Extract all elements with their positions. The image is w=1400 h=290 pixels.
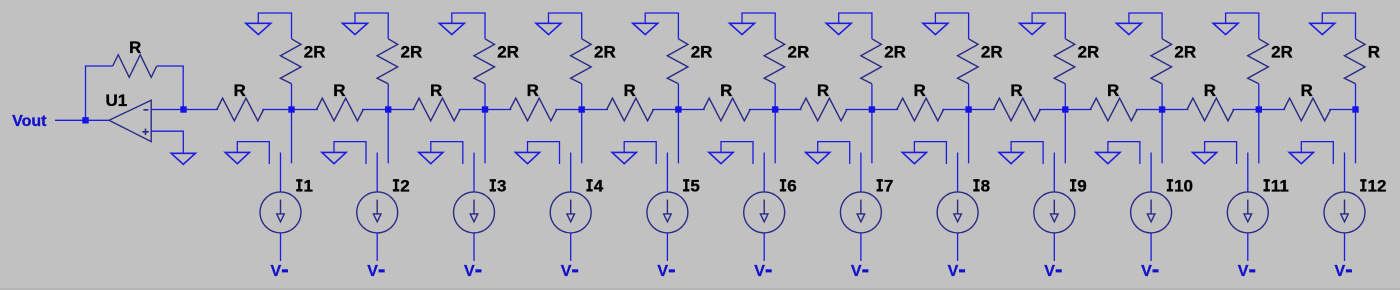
ground (top of 2R #3) wire (452, 13, 485, 39)
node N4 (junction square) (579, 106, 585, 112)
ground (top of 2R #1) symbol (246, 23, 271, 34)
label I10 (1167, 177, 1193, 196)
node N5 (junction square) (675, 106, 681, 112)
node inverting input (junction square) (180, 106, 186, 112)
ground (top of 2R #6) symbol (730, 23, 755, 34)
net label V- (#2) (367, 263, 385, 280)
ground (near I5) wire (624, 142, 656, 164)
wire 2R #10 to node (1161, 84, 1163, 110)
ground (near I8) wire (914, 142, 946, 164)
svg-text:2: 2 (400, 177, 409, 196)
svg-text:R: R (527, 81, 539, 100)
label 2R (shunt #4) (594, 42, 616, 61)
svg-text:R: R (1107, 81, 1119, 100)
label I1 (296, 177, 313, 196)
label I4 (586, 177, 603, 196)
net label V- (#6) (754, 263, 771, 280)
wire ladder segment left of R9 (969, 109, 995, 111)
svg-text:2R: 2R (1078, 42, 1100, 61)
wire non-inverting input (151, 131, 183, 153)
wire ladder segment right of R5 (652, 109, 678, 111)
svg-text:Vout: Vout (12, 113, 47, 130)
wire feedback left (86, 66, 113, 117)
wire node N10 down (1161, 113, 1163, 164)
wire Vout to output node (55, 119, 86, 121)
ground (top of 2R #10) wire (1129, 13, 1162, 39)
wire 2R #8 to node (968, 84, 970, 110)
wire node N4 down (581, 113, 583, 164)
wire ladder segment right of R2 (362, 109, 388, 111)
ground (near I12) wire (1301, 142, 1333, 164)
wire ladder segment right of R10 (1136, 109, 1162, 111)
wire 2R #4 to node (581, 84, 583, 110)
resistor 2R (shunt #8) body (958, 39, 979, 84)
node N9 (junction square) (1062, 106, 1068, 112)
node N10 (junction square) (1159, 106, 1165, 112)
resistor R (series #7) body (800, 98, 847, 121)
wire output node to op-amp (86, 119, 110, 121)
node N2 (junction square) (385, 106, 391, 112)
wire ladder segment left of R2 (292, 109, 318, 111)
net label V- (#1) (271, 263, 289, 280)
wire node N6 down (774, 113, 776, 164)
resistor R (series #9) body (994, 98, 1041, 121)
wire ladder segment right of R7 (846, 109, 872, 111)
wire node N1 down (291, 113, 293, 164)
ground (near I2) wire (334, 142, 366, 164)
wire ladder segment right of R4 (555, 109, 581, 111)
svg-text:V: V (948, 263, 959, 280)
label I3 (490, 177, 507, 196)
svg-text:R: R (1204, 81, 1216, 100)
node N1 (junction square) (288, 106, 294, 112)
svg-text:2R: 2R (401, 42, 423, 61)
ground (near I5) symbol (612, 152, 636, 163)
label I7 (877, 177, 894, 196)
wire ladder segment right of R6 (749, 109, 775, 111)
net label V- (#5) (657, 263, 674, 280)
current source I11 (1227, 153, 1268, 262)
svg-text:V: V (1335, 263, 1346, 280)
svg-text:V: V (657, 263, 668, 280)
ground (near I3) wire (431, 142, 463, 164)
ground (top of 2R #8) wire (935, 13, 968, 39)
label R (series #8) (914, 81, 926, 100)
ground (top of 2R #6) wire (742, 13, 775, 39)
resistor 2R (shunt #1) body (280, 39, 301, 84)
svg-text:5: 5 (690, 177, 699, 196)
ground (top of 2R #11) wire (1226, 13, 1259, 39)
wire ladder segment right of R3 (459, 109, 485, 111)
svg-text:V: V (1238, 263, 1249, 280)
svg-text:R: R (129, 38, 141, 57)
label R (series #5) (623, 81, 635, 100)
ground (near I10) symbol (1096, 152, 1120, 163)
wire ladder segment right of R8 (942, 109, 968, 111)
svg-text:V: V (754, 263, 765, 280)
svg-text:R: R (1010, 81, 1022, 100)
label I9 (1070, 177, 1087, 196)
svg-text:8: 8 (981, 177, 990, 196)
net label V- (#9) (1044, 263, 1061, 280)
ground (near I6) wire (721, 142, 753, 164)
label 2R (shunt #5) (691, 42, 713, 61)
label 2R (shunt #6) (788, 42, 810, 61)
wire ladder segment left of R12 (1259, 109, 1285, 111)
ground (top of 2R #9) symbol (1020, 23, 1045, 34)
current source I10 (1131, 153, 1172, 262)
label R (feedback) (129, 38, 141, 57)
svg-text:2R: 2R (497, 42, 519, 61)
svg-text:V: V (1044, 263, 1055, 280)
resistor 2R (shunt #2) body (377, 39, 398, 84)
label R (series #10) (1107, 81, 1119, 100)
ground (near I10) wire (1108, 142, 1140, 164)
wire 2R #3 to node (484, 84, 486, 110)
svg-text:12: 12 (1368, 177, 1387, 196)
label 2R (shunt #2) (401, 42, 423, 61)
svg-text:4: 4 (594, 177, 604, 196)
ground (top of 2R #7) symbol (826, 23, 851, 34)
label 2R (shunt #8) (981, 42, 1003, 61)
resistor R (series #6) body (703, 98, 750, 121)
label R (shunt #12) (1368, 42, 1380, 61)
resistor 2R (shunt #11) body (1248, 39, 1269, 84)
ground (top of 2R #5) wire (645, 13, 678, 39)
resistor R (feedback) body (113, 55, 157, 78)
label R (series #11) (1204, 81, 1216, 100)
resistor 2R (shunt #3) body (474, 39, 495, 84)
current source I3 (454, 153, 495, 262)
wire 2R #9 to node (1064, 84, 1066, 110)
svg-text:6: 6 (787, 177, 796, 196)
resistor R (series #12) body (1284, 98, 1331, 121)
svg-text:R: R (914, 81, 926, 100)
ground (near I4) symbol (515, 152, 539, 163)
ground (near I4) wire (528, 142, 560, 164)
ground (near I12) symbol (1289, 152, 1313, 163)
svg-text:2R: 2R (788, 42, 810, 61)
svg-text:2R: 2R (304, 42, 326, 61)
current source I1 (260, 153, 301, 262)
svg-text:2R: 2R (1271, 42, 1293, 61)
ground (near I7) wire (818, 142, 850, 164)
svg-text:U1: U1 (106, 91, 128, 110)
node N6 (junction square) (772, 106, 778, 112)
svg-text:R: R (333, 81, 345, 100)
current source I12 (1324, 153, 1365, 262)
current source I2 (357, 153, 398, 262)
ground (near I11) wire (1205, 142, 1237, 164)
svg-text:9: 9 (1077, 177, 1086, 196)
label R (series #1) (234, 81, 246, 100)
wire node N9 down (1064, 113, 1066, 164)
svg-text:2R: 2R (1174, 42, 1196, 61)
svg-text:R: R (234, 81, 246, 100)
wire ladder segment left of R7 (775, 109, 801, 111)
svg-text:V: V (464, 263, 475, 280)
wire 2R #5 to node (677, 84, 679, 110)
node N7 (junction square) (869, 106, 875, 112)
wire ladder segment left of R4 (485, 109, 511, 111)
current source I6 (744, 153, 785, 262)
label 2R (shunt #9) (1078, 42, 1100, 61)
label R (series #7) (817, 81, 829, 100)
wire ladder segment left of R5 (582, 109, 608, 111)
resistor 2R (shunt #7) body (861, 39, 882, 84)
current source I9 (1034, 153, 1075, 262)
label I5 (683, 177, 700, 196)
label 2R (shunt #10) (1174, 42, 1196, 61)
ground (near I1) wire (237, 142, 269, 164)
svg-text:V: V (851, 263, 862, 280)
node Vout (junction square) (82, 117, 88, 123)
node N3 (junction square) (482, 106, 488, 112)
svg-text:2R: 2R (981, 42, 1003, 61)
ground (top of 2R #7) wire (839, 13, 872, 39)
wire 2R #6 to node (774, 84, 776, 110)
label R (series #9) (1010, 81, 1022, 100)
svg-text:3: 3 (497, 177, 506, 196)
ground (near I6) symbol (709, 152, 733, 163)
wire node N3 down (484, 113, 486, 164)
ground (near I9) symbol (999, 152, 1023, 163)
label R (series #3) (430, 81, 442, 100)
svg-text:V: V (271, 263, 282, 280)
label I12 (1360, 177, 1386, 196)
svg-text:R: R (817, 81, 829, 100)
svg-text:2R: 2R (884, 42, 906, 61)
ground (near I8) symbol (902, 152, 926, 163)
current source I5 (647, 153, 688, 262)
ground (near I3) symbol (419, 152, 443, 163)
ground (top of 2R #1) wire (258, 13, 291, 39)
ground (top of 2R #11) symbol (1213, 23, 1238, 34)
label 2R (shunt #3) (497, 42, 519, 61)
wire 2R #7 to node (871, 84, 873, 110)
wire ladder segment left of R1 (184, 109, 219, 111)
svg-text:1: 1 (304, 177, 313, 196)
wire ladder segment left of R8 (872, 109, 898, 111)
wire R #12 to node (1355, 84, 1357, 110)
net label V- (#4) (561, 263, 578, 280)
node N12 (junction square) (1352, 106, 1358, 112)
wire node N5 down (677, 113, 679, 164)
svg-text:R: R (1368, 42, 1380, 61)
net label Vout (12, 113, 47, 130)
bottom window edge strip (0, 288, 1400, 290)
resistor R (series #4) body (510, 98, 557, 121)
wire node N2 down (387, 113, 389, 164)
label 2R (shunt #7) (884, 42, 906, 61)
ground (near I2) symbol (322, 152, 346, 163)
resistor 2R (shunt #4) body (571, 39, 592, 84)
wire node N7 down (871, 113, 873, 164)
node N8 (junction square) (965, 106, 971, 112)
svg-text:V: V (561, 263, 572, 280)
svg-text:R: R (623, 81, 635, 100)
net label V- (#12) (1335, 263, 1353, 280)
wire 2R #11 to node (1258, 84, 1260, 110)
label U1 (106, 91, 128, 110)
resistor R (series #11) body (1187, 98, 1234, 121)
resistor R (series #1) body (217, 98, 264, 121)
op-amp U1 (109, 100, 151, 141)
svg-text:R: R (720, 81, 732, 100)
label 2R (shunt #11) (1271, 42, 1293, 61)
ground (op-amp + input) (171, 153, 195, 164)
resistor R (series #2) body (317, 98, 364, 121)
label 2R (shunt #1) (304, 42, 326, 61)
wire 2R #2 to node (387, 84, 389, 110)
label R (series #6) (720, 81, 732, 100)
label I6 (780, 177, 797, 196)
ground (top of 2R #5) symbol (633, 23, 658, 34)
svg-text:11: 11 (1271, 177, 1289, 196)
ground (top of R #12) symbol (1310, 23, 1335, 34)
ground (near I7) symbol (806, 152, 830, 163)
wire 2R #1 to node (291, 84, 293, 110)
ground (top of 2R #2) wire (355, 13, 388, 39)
svg-text:V: V (367, 263, 378, 280)
resistor 2R (shunt #6) body (764, 39, 785, 84)
current source I7 (840, 153, 881, 262)
resistor R (series #5) body (607, 98, 654, 121)
svg-text:2R: 2R (594, 42, 616, 61)
wire ladder segment left of R11 (1162, 109, 1188, 111)
resistor 2R (shunt #9) body (1054, 39, 1075, 84)
svg-text:7: 7 (884, 177, 893, 196)
net label V- (#7) (851, 263, 868, 280)
resistor R (shunt #12) body (1344, 39, 1365, 84)
resistor R (series #10) body (1090, 98, 1137, 121)
wire ladder segment right of R9 (1039, 109, 1065, 111)
wire node N8 down (968, 113, 970, 164)
label I2 (393, 177, 410, 196)
resistor R (series #8) body (897, 98, 944, 121)
svg-text:R: R (430, 81, 442, 100)
ground (top of 2R #4) wire (549, 13, 582, 39)
current source I4 (550, 153, 591, 262)
wire node N12 down (1355, 113, 1357, 164)
ground (near I1) symbol (225, 152, 249, 163)
ground (top of 2R #4) symbol (536, 23, 561, 34)
wire ladder segment right of R1 (262, 109, 291, 111)
resistor 2R (shunt #10) body (1151, 39, 1172, 84)
resistor R (series #3) body (413, 98, 460, 121)
net label V- (#3) (464, 263, 482, 280)
wire node N11 down (1258, 113, 1260, 164)
wire ladder segment left of R10 (1065, 109, 1091, 111)
wire ladder segment left of R3 (388, 109, 414, 111)
net label V- (#10) (1141, 263, 1159, 280)
wire ladder segment right of R11 (1232, 109, 1258, 111)
ground (near I9) wire (1011, 142, 1043, 164)
label R (series #4) (527, 81, 539, 100)
net label V- (#11) (1238, 263, 1255, 280)
ground (top of 2R #9) wire (1032, 13, 1065, 39)
label I8 (973, 177, 990, 196)
svg-text:V: V (1141, 263, 1152, 280)
ground (top of 2R #10) symbol (1116, 23, 1141, 34)
svg-text:10: 10 (1174, 177, 1193, 196)
net label V- (#8) (948, 263, 966, 280)
ground (top of 2R #2) symbol (343, 23, 368, 34)
wire ladder segment right of R12 (1329, 109, 1355, 111)
ground (top of 2R #3) symbol (439, 23, 464, 34)
label R (series #12) (1301, 81, 1313, 100)
resistor 2R (shunt #5) body (667, 39, 688, 84)
ground (top of 2R #8) symbol (923, 23, 948, 34)
node N11 (junction square) (1256, 106, 1262, 112)
current source I8 (937, 153, 978, 262)
ground (top of R #12) wire (1322, 13, 1355, 39)
ground (near I11) symbol (1193, 152, 1217, 163)
svg-text:2R: 2R (691, 42, 713, 61)
wire ladder segment left of R6 (678, 109, 704, 111)
svg-text:R: R (1301, 81, 1313, 100)
wire inverting input (151, 109, 183, 111)
label I11 (1264, 177, 1289, 196)
label R (series #2) (333, 81, 345, 100)
wire feedback right (157, 66, 184, 107)
